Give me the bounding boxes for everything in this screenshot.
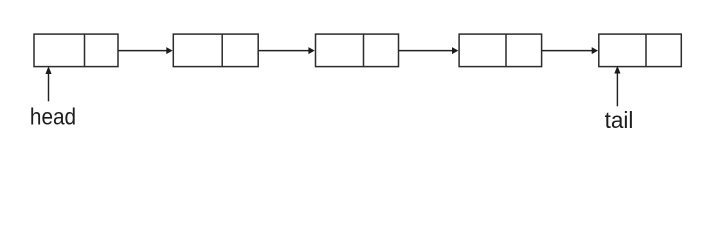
svg-text:head: head [30, 104, 76, 130]
svg-text:tail: tail [605, 107, 634, 133]
